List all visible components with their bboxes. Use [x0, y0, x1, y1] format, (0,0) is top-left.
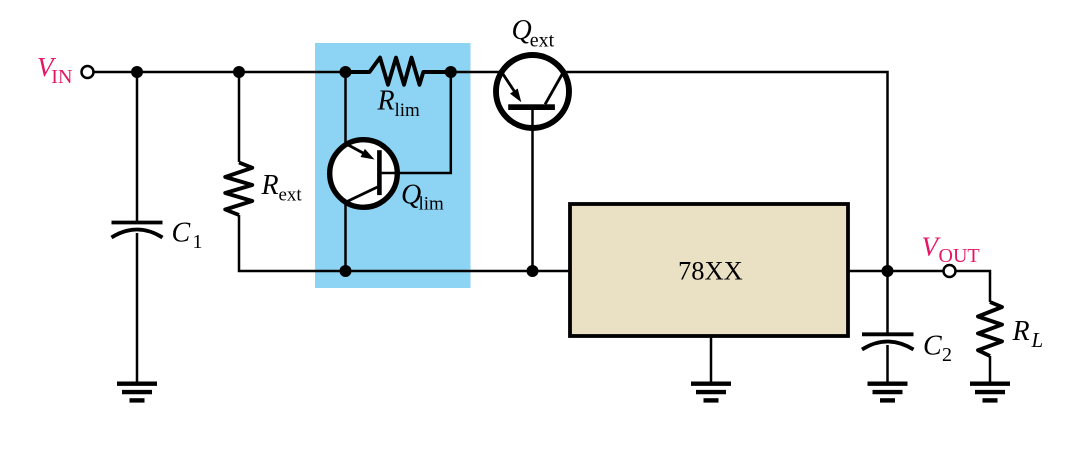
- resistor Rlim: [346, 58, 451, 85]
- capacitor C2: [862, 271, 914, 382]
- label Rlim: [377, 85, 421, 121]
- wire node B to node C: [239, 71, 346, 74]
- svg-text:Q: Q: [512, 15, 532, 46]
- label VIN: [37, 52, 72, 88]
- svg-text:ext: ext: [530, 29, 555, 51]
- wire node A to node B: [137, 71, 239, 74]
- ground for C2: [868, 384, 908, 401]
- resistor Rext: [225, 72, 252, 215]
- svg-text:ext: ext: [279, 185, 303, 206]
- junction node A: [131, 66, 143, 78]
- wire node G to VOUT terminal: [888, 270, 944, 273]
- label RL: [1012, 316, 1044, 352]
- transistor Qext: [496, 55, 569, 128]
- svg-text:1: 1: [193, 231, 203, 253]
- ground for C1: [117, 384, 157, 401]
- wire regulator ground pin: [710, 336, 713, 382]
- junction node E (Qlim collector on rail): [340, 265, 352, 277]
- svg-text:R: R: [377, 85, 395, 116]
- svg-text:lim: lim: [419, 194, 445, 215]
- wire bottom rail E to F: [346, 270, 533, 273]
- wire regulator output to node G: [848, 270, 888, 273]
- svg-text:lim: lim: [395, 100, 421, 121]
- transistor Qlim: [330, 72, 398, 271]
- capacitor C1: [112, 72, 163, 382]
- svg-text:L: L: [1031, 328, 1044, 352]
- svg-text:C: C: [923, 331, 942, 362]
- wire Rext to bottom rail: [239, 215, 346, 271]
- junction node F (Qext base on rail): [527, 265, 539, 277]
- junction node B: [233, 66, 245, 78]
- svg-text:OUT: OUT: [939, 245, 980, 267]
- svg-text:C: C: [172, 218, 191, 249]
- label Qext: [512, 15, 555, 51]
- junction node C: [340, 66, 352, 78]
- label C2: [923, 331, 952, 367]
- label Qlim: [401, 180, 444, 215]
- node VOUT terminal: [944, 265, 956, 277]
- wire VOUT to RL: [956, 271, 991, 302]
- svg-text:78XX: 78XX: [678, 255, 743, 285]
- regulator U1 78XX: [570, 204, 848, 336]
- wire node D to Qext emitter: [451, 71, 502, 74]
- wire Qext collector to output node: [563, 72, 887, 271]
- ground for regulator: [691, 384, 731, 401]
- svg-text:R: R: [261, 170, 279, 201]
- svg-text:R: R: [1012, 316, 1030, 347]
- svg-text:2: 2: [942, 344, 952, 366]
- junction node D: [445, 66, 457, 78]
- node VIN terminal: [82, 66, 94, 78]
- wire rail F to regulator input: [533, 270, 571, 273]
- ground for RL: [970, 384, 1010, 401]
- wire Qext base down: [531, 109, 534, 271]
- wire VIN to node A: [94, 71, 137, 74]
- label VOUT: [922, 232, 980, 268]
- label Rext: [261, 170, 303, 206]
- junction node G: [882, 265, 894, 277]
- resistor RL: [978, 302, 1002, 382]
- current-limit highlight region: [315, 43, 471, 288]
- wire Qlim base loop: [382, 72, 451, 173]
- label C1: [172, 218, 203, 254]
- svg-text:IN: IN: [51, 66, 72, 88]
